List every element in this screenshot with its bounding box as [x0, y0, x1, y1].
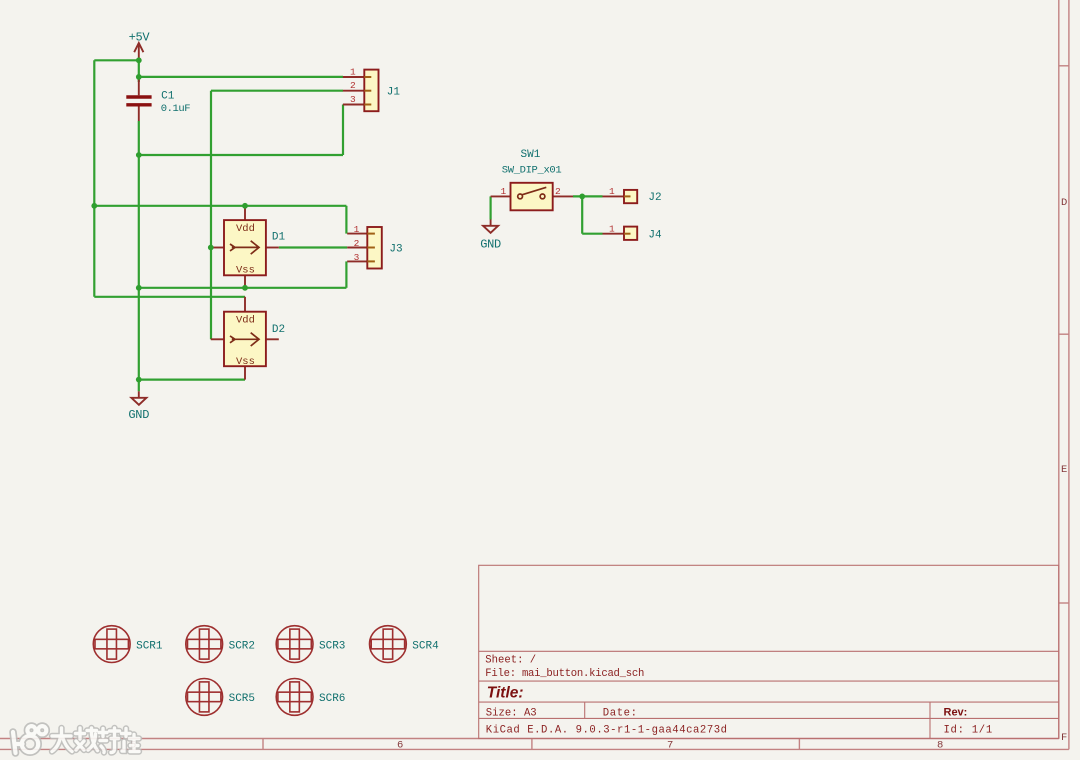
- svg-text:1: 1: [609, 186, 615, 197]
- SW1 right contact: [540, 194, 545, 199]
- junction SW1 output node: [579, 194, 585, 200]
- J2 body: [624, 190, 637, 203]
- D2 arrow glyph: [230, 336, 235, 343]
- svg-text:1: 1: [501, 186, 507, 197]
- +5V arrow stem: [138, 43, 140, 60]
- svg-text:F: F: [1061, 732, 1067, 744]
- J1 pin 2 contact stub: [364, 90, 371, 92]
- junction GND net at D2 Vss wire: [136, 377, 142, 383]
- GND triangle: [131, 398, 146, 405]
- GND triangle: [483, 226, 498, 233]
- SW1 lever: [522, 187, 546, 194]
- wire J2 node down: [581, 196, 583, 233]
- wire J1 pin1 net: [139, 76, 343, 78]
- svg-text:Date:: Date:: [603, 708, 638, 720]
- wire data rail vertical: [210, 91, 212, 340]
- GND pin stem: [138, 391, 140, 398]
- J4 body: [624, 227, 637, 240]
- svg-text:SCR1: SCR1: [136, 640, 163, 652]
- svg-text:SW_DIP_x01: SW_DIP_x01: [502, 165, 562, 177]
- SCR3 screw head circle: [276, 626, 313, 663]
- wire Vdd rail to J3 pin1: [345, 206, 347, 234]
- svg-text:7: 7: [667, 740, 673, 752]
- svg-text:6: 6: [397, 740, 403, 752]
- J3 pin 3: [347, 260, 367, 262]
- J4 pin 1: [603, 233, 625, 235]
- svg-text:1: 1: [609, 224, 615, 235]
- J1 body: [364, 70, 378, 112]
- wire SW1 pin2 to J2: [573, 195, 603, 197]
- J1 pin 1: [343, 76, 364, 78]
- SW1 pin 1: [491, 195, 511, 197]
- junction GND net at J1 pin3 wire: [136, 152, 142, 158]
- svg-text:Id: 1/1: Id: 1/1: [944, 724, 993, 736]
- D1 Vdd pin: [244, 206, 246, 220]
- D2 data-in pin: [211, 338, 224, 340]
- J2 pin 1 contact stub: [624, 195, 631, 197]
- svg-text:D2: D2: [272, 324, 285, 336]
- watermark logo: [13, 726, 46, 753]
- connector J3: [347, 224, 402, 268]
- mounting screw SCR2: [186, 626, 255, 663]
- svg-text:Size: A3: Size: A3: [486, 708, 537, 720]
- svg-text:D: D: [1061, 197, 1067, 209]
- wire D1 output to J3 pin2: [279, 246, 347, 248]
- J1 pin 3: [343, 104, 364, 106]
- wire Vdd rail horizontal: [94, 205, 346, 207]
- ground symbol GND at SW1: [480, 220, 501, 252]
- svg-text:SCR2: SCR2: [229, 640, 255, 652]
- mounting screw SCR1: [93, 626, 163, 663]
- mounting screw SCR3: [276, 626, 345, 663]
- mounting screw SCR4: [370, 626, 440, 663]
- wire +5V rail to D2 Vdd: [94, 296, 245, 298]
- J3 pin 1 contact stub: [367, 233, 375, 235]
- SCR2 screw head circle: [186, 626, 223, 663]
- D1 body: [224, 220, 266, 275]
- J3 pin 2 contact stub: [367, 247, 375, 249]
- svg-text:2: 2: [354, 238, 360, 249]
- svg-text:GND: GND: [128, 408, 149, 422]
- ground symbol GND main: [128, 380, 149, 423]
- wire C1 to GND node column: [138, 121, 140, 380]
- wire Vss rail to J3 pin3: [345, 261, 347, 287]
- wire +5V top horizontal: [94, 59, 139, 61]
- SCR1 screw head circle: [93, 626, 130, 663]
- title block: [479, 565, 1059, 738]
- svg-text:2: 2: [350, 80, 356, 91]
- svg-text:Vdd: Vdd: [236, 223, 255, 235]
- svg-text:Vss: Vss: [236, 356, 255, 368]
- svg-text:SW1: SW1: [521, 149, 541, 161]
- svg-text:Sheet: /: Sheet: /: [485, 655, 536, 667]
- svg-text:KiCad E.D.A. 9.0.3-r1-1-gaa44c: KiCad E.D.A. 9.0.3-r1-1-gaa44ca273d: [486, 724, 728, 736]
- J1 pin 1 contact stub: [364, 76, 371, 78]
- wire left +5V rail vertical: [93, 60, 95, 296]
- svg-text:Rev:: Rev:: [944, 707, 968, 719]
- connector J1: [343, 67, 401, 112]
- wire J1 pin2 to data rail horizontal: [211, 90, 343, 92]
- svg-text:SCR3: SCR3: [319, 640, 345, 652]
- svg-text:3: 3: [354, 252, 360, 263]
- J1 pin 2: [343, 90, 364, 92]
- wire stub to GND symbol: [138, 380, 140, 392]
- svg-text:Title:: Title:: [487, 684, 524, 701]
- svg-text:SCR6: SCR6: [319, 693, 345, 705]
- svg-text:Vdd: Vdd: [236, 315, 255, 327]
- connector J2: [603, 186, 662, 204]
- C1 pin 2: [138, 107, 140, 122]
- svg-text:J4: J4: [648, 230, 662, 242]
- mounting screw SCR5: [186, 679, 255, 716]
- svg-text:J2: J2: [648, 192, 661, 204]
- svg-text:1: 1: [354, 224, 360, 235]
- C1 bottom plate: [126, 103, 151, 106]
- +5V arrow head: [134, 43, 143, 52]
- J3 pin 2: [347, 247, 367, 249]
- svg-text:0.1uF: 0.1uF: [161, 103, 191, 115]
- junction +5V node at C1 top: [136, 57, 142, 63]
- D1 data-out pin: [266, 247, 279, 249]
- LED module D2: [211, 297, 285, 380]
- SCR4 screw head circle: [370, 626, 407, 663]
- J3 pin 3 contact stub: [367, 260, 375, 262]
- D1 Vss pin: [244, 275, 246, 288]
- junction D1 Vdd tap: [242, 203, 248, 209]
- wire +5V column to C1: [138, 60, 140, 82]
- wire Vss rail horizontal: [139, 287, 347, 289]
- svg-text:J3: J3: [389, 244, 402, 256]
- junction D1 input on data rail: [208, 245, 214, 251]
- svg-text:Vss: Vss: [236, 265, 255, 277]
- svg-text:SCR4: SCR4: [412, 640, 439, 652]
- svg-text:SCR5: SCR5: [229, 693, 255, 705]
- SW1 left contact: [518, 194, 523, 199]
- junction D1 Vss tap: [242, 285, 248, 291]
- junction J1 pin1 net tap: [136, 74, 142, 80]
- C1 top plate: [126, 95, 151, 98]
- junction GND net at Vss rail: [136, 285, 142, 291]
- svg-text:+5V: +5V: [129, 31, 151, 45]
- J3 body: [367, 227, 382, 269]
- J3 pin 1: [347, 233, 367, 235]
- power symbol +5V: [129, 31, 151, 61]
- svg-text:1: 1: [350, 67, 356, 78]
- svg-text:File: mai_button.kicad_sch: File: mai_button.kicad_sch: [485, 668, 644, 680]
- connector J4: [603, 224, 663, 242]
- D2 Vdd pin: [244, 297, 246, 312]
- svg-text:8: 8: [937, 740, 943, 752]
- wire GND net to J1 pin3: [139, 154, 343, 156]
- SW1 body: [511, 183, 553, 211]
- J2 pin 1: [603, 195, 625, 197]
- svg-text:E: E: [1061, 464, 1067, 476]
- svg-text:2: 2: [555, 186, 561, 197]
- D2 body: [224, 312, 266, 367]
- junction +5V rail left: [91, 203, 97, 209]
- svg-text:J1: J1: [387, 86, 401, 98]
- svg-text:3: 3: [350, 94, 356, 105]
- SCR5 screw head circle: [186, 679, 223, 716]
- wire SW1 pin1 to GND: [490, 196, 492, 219]
- svg-text:GND: GND: [480, 238, 501, 252]
- J1 pin 3 contact stub: [364, 104, 371, 106]
- wire J1 pin3 vertical: [342, 105, 344, 156]
- capacitor C1: [126, 80, 190, 122]
- GND pin stem: [490, 220, 492, 226]
- switch SW1: [491, 149, 573, 210]
- J4 pin 1 contact stub: [624, 233, 631, 235]
- C1 pin 1: [138, 80, 140, 96]
- svg-text:C1: C1: [161, 90, 175, 102]
- SCR6 screw head circle: [276, 679, 313, 716]
- watermark characters: [52, 728, 139, 753]
- SW1 pin 2: [553, 195, 573, 197]
- D2 data-out pin: [266, 338, 279, 340]
- svg-text:D1: D1: [272, 231, 286, 243]
- LED module D1: [211, 206, 286, 288]
- wire D2 Vss to GND column: [139, 379, 245, 381]
- D1 arrow glyph: [230, 244, 235, 251]
- mounting screw SCR6: [276, 679, 345, 716]
- wire to J4 pin1: [582, 233, 602, 235]
- D2 Vss pin: [244, 366, 246, 379]
- D1 data-in pin: [211, 247, 224, 249]
